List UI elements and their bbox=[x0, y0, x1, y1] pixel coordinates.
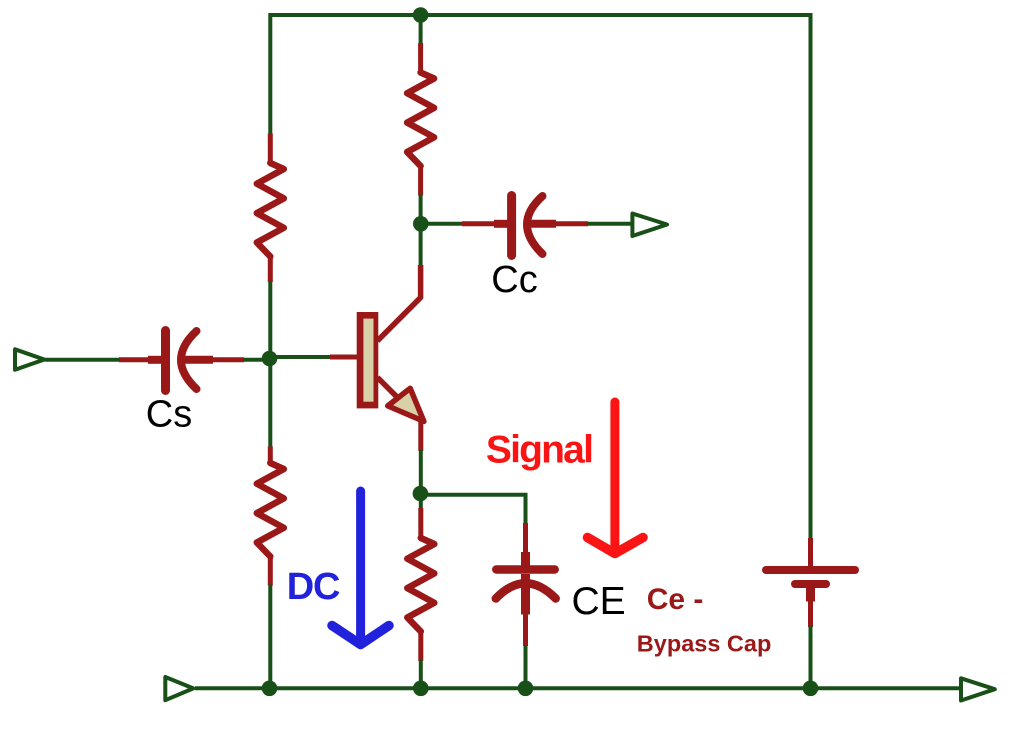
node: rail junction at RE bbox=[413, 681, 429, 697]
resistor R1 bottom lead bbox=[268, 256, 273, 282]
capacitor Cs curved plate bbox=[181, 331, 197, 389]
capacitor Cs left lead bbox=[119, 357, 149, 362]
node: top rail junction at RC bbox=[413, 7, 429, 23]
resistor RC top lead bbox=[418, 43, 423, 74]
capacitor CE bottom lead bbox=[523, 614, 528, 647]
resistor R2 bottom lead bbox=[268, 556, 273, 586]
node: rail junction at R2 bbox=[262, 681, 278, 697]
resistor RE top lead bbox=[418, 508, 423, 539]
wire: right vertical (top rail to battery) bbox=[809, 13, 813, 539]
capacitor Cc straight plate bbox=[507, 196, 516, 256]
node: collector junction dot bbox=[413, 216, 429, 232]
node: base junction dot bbox=[262, 351, 278, 367]
capacitor Cc left lead stub bbox=[494, 220, 508, 228]
capacitor CE top lead stub bbox=[521, 552, 530, 566]
node: emitter junction dot bbox=[413, 486, 429, 502]
wire: emitter node to CE branch (L-shape) bbox=[420, 495, 525, 524]
wire: center vertical (RC to collector node) bbox=[419, 195, 423, 267]
wire: center vertical top (top rail to RC) bbox=[419, 13, 423, 44]
svg-text:Ce -: Ce - bbox=[647, 583, 704, 616]
svg-text:Cs: Cs bbox=[146, 393, 192, 435]
node: rail junction at CE bbox=[518, 681, 534, 697]
wire: Cc to output terminal bbox=[587, 222, 632, 226]
wire: collector node to Cc (green) bbox=[421, 222, 463, 226]
transistor Q1 collector lead (diagonal) bbox=[378, 265, 421, 341]
resistor RE bottom lead bbox=[418, 631, 423, 661]
resistor RC bottom lead bbox=[418, 166, 423, 196]
transistor Q1 emitter lead (diagonal) bbox=[378, 378, 399, 399]
capacitor CE curved plate bbox=[496, 583, 556, 598]
wire: input terminal to Cs bbox=[45, 358, 120, 362]
wire: left vertical lower (R2 to ground rail) bbox=[268, 585, 272, 691]
transistor Q1 emitter lead (vertical, to emitter node) bbox=[418, 417, 423, 451]
resistor RC (collector resistor) bbox=[407, 73, 434, 167]
transistor Q1 base lead bbox=[330, 355, 358, 360]
capacitor Cc curved plate bbox=[527, 196, 543, 254]
resistor R2 top lead bbox=[268, 447, 273, 465]
svg-text:Signal: Signal bbox=[486, 428, 592, 471]
capacitor Cs straight plate bbox=[161, 331, 170, 391]
wire: Cs to base node bbox=[243, 358, 272, 362]
resistor RE (emitter resistor) bbox=[407, 538, 434, 632]
battery bottom lead bbox=[808, 601, 813, 628]
wire: top supply rail bbox=[269, 13, 813, 17]
capacitor Cc right lead stub bbox=[524, 220, 556, 228]
transistor Q1 emitter arrowhead bbox=[388, 388, 424, 421]
resistor R1 (upper bias resistor) bbox=[257, 163, 284, 257]
wire: CE to ground rail bbox=[524, 645, 528, 690]
capacitor CE top lead bbox=[523, 523, 528, 553]
wire: emitter node down to RE bbox=[419, 494, 423, 510]
svg-text:Cc: Cc bbox=[491, 259, 537, 301]
svg-text:Bypass Cap: Bypass Cap bbox=[637, 631, 772, 657]
transistor Q1 base bar bbox=[357, 312, 379, 408]
capacitor CE bottom lead stub bbox=[521, 574, 530, 615]
capacitor Cs right lead stub bbox=[178, 356, 213, 364]
input terminal arrow bbox=[15, 349, 44, 370]
capacitor Cs left lead stub bbox=[148, 356, 162, 364]
wire: emitter to emitter node bbox=[419, 450, 423, 494]
annotation arrow: DC (blue, down) bbox=[356, 491, 365, 641]
battery positive plate (long) bbox=[766, 566, 855, 574]
annotation arrow: Signal (red, down) bbox=[610, 402, 619, 549]
battery top lead bbox=[808, 538, 813, 567]
wire: left vertical middle (R1 to R2 through base node) bbox=[268, 281, 272, 448]
svg-text:CE: CE bbox=[572, 580, 626, 623]
wire: base node to transistor base lead bbox=[270, 355, 332, 359]
capacitor CE straight plate bbox=[496, 565, 554, 574]
svg-text:DC: DC bbox=[287, 566, 340, 608]
resistor R1 top lead bbox=[268, 134, 273, 165]
battery bottom lead stub bbox=[806, 584, 815, 602]
bottom ground rail terminal arrow (right) bbox=[961, 678, 995, 700]
node: rail junction at battery bbox=[803, 681, 819, 697]
resistor R2 (lower bias resistor) bbox=[257, 463, 284, 557]
wire: left vertical upper (top rail to R1) bbox=[268, 13, 272, 135]
capacitor Cs right lead bbox=[212, 357, 244, 362]
bottom ground rail terminal arrow (left) bbox=[165, 677, 193, 700]
capacitor Cc left lead bbox=[462, 221, 495, 226]
wire: RE to ground rail bbox=[419, 660, 423, 690]
output terminal arrow bbox=[632, 214, 667, 237]
wire: bottom ground rail bbox=[195, 686, 961, 690]
battery negative plate (short) bbox=[795, 580, 826, 588]
wire: battery to ground rail bbox=[809, 626, 813, 690]
capacitor Cc right lead bbox=[555, 221, 588, 226]
